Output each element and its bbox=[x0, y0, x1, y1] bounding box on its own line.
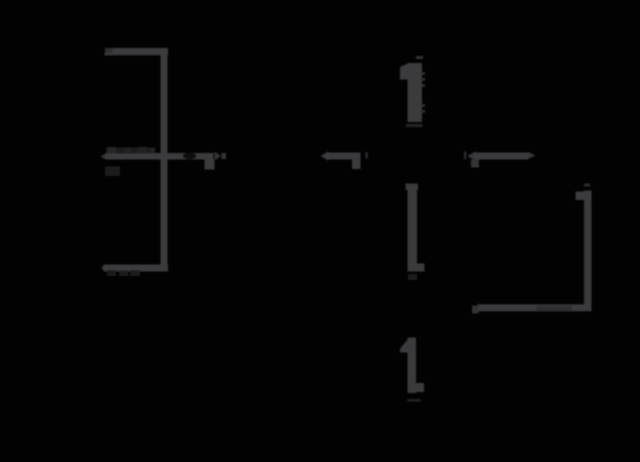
wire hook down at node A bbox=[205, 160, 215, 170]
node label 1 (top) baseline bbox=[406, 124, 423, 127]
current arrow I2 body wire bbox=[475, 153, 529, 160]
value label below bottom wire bbox=[107, 270, 140, 276]
node label 1 (top) overbar dash bbox=[416, 56, 423, 59]
current arrow I2 right head bbox=[528, 152, 536, 159]
node label 1 (top) stem bbox=[408, 63, 423, 122]
current arrow I2 left head bbox=[468, 151, 476, 160]
shadow tag under middle wire left end bbox=[105, 167, 120, 177]
wire center segment foot bbox=[408, 264, 425, 272]
load bracket B2 bottom wire left serif bbox=[472, 306, 479, 314]
node label 1 (bottom) stem bbox=[408, 338, 417, 394]
dash terminal after arrowhead bbox=[222, 153, 227, 159]
faint node dot below foot bbox=[408, 274, 417, 280]
node label 1 (top) flag bbox=[400, 63, 409, 80]
tick terminal right of I1 bbox=[366, 152, 368, 159]
source bracket B1 bottom wire bbox=[102, 265, 169, 272]
wire vertical center segment bbox=[408, 184, 418, 272]
current arrow I1 head (points left) bbox=[321, 151, 329, 160]
load bracket B2 bottom wire bbox=[478, 304, 592, 311]
load bracket B2 top hook wire bbox=[576, 192, 586, 201]
current arrow I1 body wire bbox=[328, 153, 361, 160]
load bracket B2 top dash bbox=[584, 184, 590, 187]
wire vertical center segment cap bbox=[406, 184, 419, 191]
dark oval gap on middle wire bbox=[183, 153, 197, 160]
tick terminal left of I2 bbox=[464, 152, 466, 160]
source bracket B1 top wire bbox=[104, 48, 168, 55]
node label 1 (top) stem right-edge texture bbox=[422, 72, 426, 113]
wire middle arm of B1 to node A bbox=[105, 153, 214, 160]
node label 1 (bottom) base serif bbox=[416, 383, 424, 392]
current arrow I2 tail hook down bbox=[471, 160, 479, 168]
current arrow I1 tail hook down bbox=[352, 160, 361, 170]
source bracket B1 vertical bus wire bbox=[161, 48, 168, 272]
arrowhead right at node A bbox=[215, 152, 222, 161]
node label 1 (bottom) flag bbox=[400, 338, 410, 353]
node label 1 (bottom) baseline bbox=[408, 399, 421, 402]
load bracket B2 vertical wire bbox=[584, 191, 592, 312]
wire middle arm left taper bbox=[101, 154, 106, 160]
label texture on bottom wire bbox=[536, 306, 572, 312]
source bracket B1 top wire left serif bbox=[105, 48, 113, 53]
value label above middle wire bbox=[106, 147, 155, 154]
